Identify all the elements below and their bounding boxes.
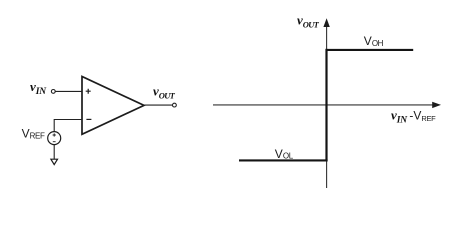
vertical axis v_OUT <box>323 18 329 188</box>
transfer curve V_OH level line <box>326 49 414 51</box>
ground <box>51 159 58 164</box>
node v_OUT output terminal <box>173 103 177 107</box>
svg-text:vIN: vIN <box>30 79 47 97</box>
node v_IN input terminal <box>51 90 55 94</box>
wire v_IN to op-amp + input <box>55 90 82 92</box>
wire op-amp - input to VREF <box>54 120 82 132</box>
transfer curve step at origin <box>325 49 327 161</box>
op-amp U1 <box>82 77 144 135</box>
wire VREF to ground <box>53 145 55 160</box>
horizontal axis v_IN - V_REF <box>213 102 441 108</box>
transfer curve V_OL level line <box>239 159 328 161</box>
svg-text:vOUT: vOUT <box>153 84 176 101</box>
svg-text:VREF: VREF <box>22 126 45 140</box>
svg-text:vIN -VREF: vIN -VREF <box>391 108 436 126</box>
wire op-amp output <box>144 104 172 106</box>
svg-text:vOUT: vOUT <box>297 13 320 30</box>
svg-text:VOL: VOL <box>275 147 294 161</box>
svg-text:VOH: VOH <box>364 34 384 48</box>
voltage source VREF <box>48 132 61 145</box>
